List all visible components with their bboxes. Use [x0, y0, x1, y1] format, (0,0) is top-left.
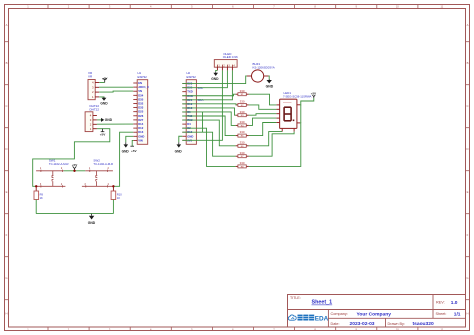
switch SW1 TC-1102-A-M-R: [36, 158, 68, 187]
svg-text:D27: D27: [138, 118, 144, 122]
wire U2 D2 to R8: [182, 128, 235, 166]
ground flag at switches rail: [88, 214, 96, 226]
svg-text:KS-1206SD03YA: KS-1206SD03YA: [253, 66, 275, 70]
svg-text:GND: GND: [211, 77, 219, 81]
junction at +5V switches: [73, 170, 75, 172]
svg-text:1/1: 1/1: [454, 312, 461, 318]
svg-text:G: G: [466, 276, 468, 280]
wire U2 D5 branch to D15 row: [202, 112, 204, 132]
wire DHT22 pin1 (+5V net) down to switches: [33, 129, 110, 187]
svg-text:D32: D32: [138, 102, 144, 106]
svg-text:Drawn By:: Drawn By:: [388, 322, 406, 326]
svg-text:Sheet_1: Sheet_1: [312, 300, 333, 306]
svg-text:H: H: [5, 312, 7, 316]
wire ground rail: [36, 213, 113, 215]
svg-text:E: E: [467, 190, 469, 194]
wire OLED pin2 VCC to U2 3V3: [182, 70, 222, 140]
svg-text:B: B: [467, 61, 469, 65]
wire VR pin2 to U1 VN: [99, 91, 133, 92]
op-amp U2 ESP32 header H2: [182, 71, 196, 144]
svg-text:330: 330: [240, 140, 245, 144]
op-amp U1 ESP32 header H1: [133, 71, 149, 144]
wire U2 D5 to R4: [182, 112, 235, 125]
junction at SW1 pin3: [35, 185, 37, 187]
wire U2 D15 to R7: [182, 132, 235, 156]
resistor R6 330: [236, 140, 249, 147]
svg-text:GND: GND: [138, 134, 144, 138]
svg-text:EDA: EDA: [315, 315, 329, 322]
connector DHT22 (4-pin header): [85, 104, 99, 132]
wire U2 RXD to R1: [182, 94, 235, 96]
svg-text:TITLE:: TITLE:: [290, 296, 301, 300]
wire DHT22 pin2 to U1 D14: [97, 123, 133, 125]
wire U2 TX2 to R5: [182, 116, 235, 136]
resistor R9 1K: [34, 186, 43, 200]
svg-text:ADC1_0: ADC1_0: [138, 85, 149, 89]
wire R3 to LED1 pin c: [249, 114, 277, 116]
svg-text:VIN: VIN: [138, 138, 143, 142]
svg-text:2023-02-03: 2023-02-03: [350, 321, 375, 327]
ground flag at OLED: [211, 72, 219, 81]
connector OLED (4-pin header): [214, 52, 238, 70]
svg-text:1.0: 1.0: [451, 300, 458, 306]
resistor R8 330: [236, 161, 249, 168]
resistor R10 1K: [111, 186, 122, 200]
svg-text:TC-1102-A-M-R: TC-1102-A-M-R: [93, 162, 113, 166]
svg-text:A: A: [467, 23, 469, 27]
svg-text:D34: D34: [138, 93, 144, 97]
svg-text:+5V: +5V: [131, 149, 138, 153]
wire VR pin1 to GND: [99, 97, 104, 98]
resistor R3 330: [236, 110, 249, 117]
title block: [288, 295, 466, 328]
svg-text:C: C: [466, 104, 468, 108]
svg-text:VN: VN: [138, 89, 142, 93]
+5V flag at VR: [102, 77, 109, 83]
+5V flag at DHT22 pin1: [100, 129, 107, 137]
wire U2 RX2 to R6: [182, 120, 235, 146]
svg-text:Your Company: Your Company: [357, 312, 392, 318]
wire SW1 pin2 to SW2 pin1: [64, 170, 86, 172]
svg-text:C: C: [5, 104, 7, 108]
svg-text:B: B: [6, 61, 8, 65]
svg-text:GND: GND: [105, 118, 113, 122]
svg-text:H: H: [466, 312, 468, 316]
ground flag at U2: [175, 142, 183, 153]
svg-text:330: 330: [240, 151, 245, 155]
wire R7 to LED1 bottom pin 2: [249, 132, 294, 157]
svg-text:+5V: +5V: [72, 163, 79, 167]
svg-text:ESP32: ESP32: [138, 75, 148, 79]
wire LED1 common anode to +5V: [300, 98, 314, 123]
svg-text:F: F: [467, 233, 469, 237]
net label SCL: [197, 86, 203, 90]
switch SW2 TC-1102-A-M-R: [82, 158, 114, 187]
resistor R2 330: [236, 100, 249, 107]
wire U2 D18 to R3: [182, 108, 235, 115]
svg-text:D33: D33: [138, 106, 144, 110]
wire VR pin3 to U1 ADC1_0: [99, 86, 133, 88]
svg-text:D25: D25: [138, 110, 144, 114]
svg-text:ESP32: ESP32: [187, 75, 197, 79]
svg-text:Company:: Company:: [331, 312, 348, 316]
svg-text:EN: EN: [138, 81, 142, 85]
7-segment display LED1: [276, 91, 311, 131]
connector VR (4-pin header): [88, 71, 99, 100]
svg-text:1K: 1K: [117, 196, 120, 200]
ground flag (right-pointing) at DHT22 pin3: [101, 118, 113, 122]
svg-text:330: 330: [240, 89, 245, 93]
wire U1 VIN to +5V: [132, 140, 133, 146]
svg-text:TC-1102-A-M-R: TC-1102-A-M-R: [49, 162, 69, 166]
wire U1 GND to ground: [126, 136, 134, 142]
svg-text:D12: D12: [138, 126, 144, 130]
svg-text:GND: GND: [100, 102, 108, 106]
wire DHT22 pin3 to GND flag: [97, 119, 101, 121]
svg-text:330: 330: [240, 120, 245, 124]
junction at SW2 pin4: [112, 185, 114, 187]
wire U2 D23 to buzzer: [182, 76, 247, 84]
+5V flag at LED1: [311, 92, 316, 98]
wire OLED pin4 SDA to U2 D21: [182, 70, 232, 99]
wire R5 to LED1 pin e: [249, 123, 277, 136]
svg-text:GND: GND: [122, 149, 130, 153]
svg-text:Sheet:: Sheet:: [436, 312, 447, 316]
svg-text:1K: 1K: [40, 196, 43, 200]
svg-text:D26: D26: [138, 114, 144, 118]
svg-text:GND: GND: [88, 221, 96, 225]
wire buzzer to GND: [267, 76, 270, 79]
svg-text:F: F: [6, 233, 8, 237]
wire U2 GND to ground: [179, 136, 183, 142]
wire R8 to LED1 common anode rail: [249, 123, 301, 166]
svg-text:G: G: [5, 276, 7, 280]
wire OLED pin1 to GND: [216, 70, 218, 71]
svg-text:D13: D13: [138, 130, 144, 134]
svg-text:330: 330: [240, 110, 245, 114]
ground flag at VR: [100, 97, 108, 106]
svg-text:D14: D14: [138, 122, 144, 126]
buzzer BUZ1: [247, 62, 275, 82]
svg-text:GND: GND: [175, 149, 183, 153]
svg-text:GND: GND: [187, 134, 193, 138]
svg-text:330: 330: [240, 130, 245, 134]
svg-text:D: D: [5, 147, 7, 151]
wire R4 to LED1 pin d: [249, 118, 277, 125]
ground flag at buzzer: [266, 79, 274, 88]
svg-text:Date:: Date:: [331, 322, 340, 326]
wire R6 to LED1 bottom pin 1: [249, 132, 282, 146]
wire VR pin4 to +5V: [99, 82, 104, 84]
svg-text:E: E: [6, 190, 8, 194]
svg-text:7-SEG-SC56-11SRWA: 7-SEG-SC56-11SRWA: [283, 95, 312, 99]
wire R9 to ground rail: [35, 200, 37, 214]
svg-text:A: A: [6, 23, 8, 27]
svg-text:+5V: +5V: [102, 77, 109, 81]
wire R1 to LED1 pin a: [249, 94, 277, 105]
svg-text:+5V: +5V: [311, 92, 316, 96]
net label SDA: [197, 98, 203, 102]
resistor R4 330: [236, 120, 249, 127]
svg-text:REV:: REV:: [436, 300, 445, 304]
svg-text:+5V: +5V: [100, 133, 107, 137]
svg-text:GND: GND: [266, 84, 274, 88]
+5V flag at switches: [72, 163, 79, 171]
wire R2 to LED1 pin b: [249, 105, 277, 109]
+5V flag at U1 VIN: [130, 146, 137, 153]
svg-text:DHT22: DHT22: [90, 107, 100, 111]
svg-text:330: 330: [240, 161, 245, 165]
svg-text:TXD: TXD: [187, 90, 193, 94]
wire R10 to ground rail: [112, 200, 114, 214]
svg-text:R10: R10: [117, 192, 122, 196]
svg-text:D4: D4: [187, 122, 191, 126]
ground flag at U1: [122, 142, 130, 153]
wire OLED pin3 SCL to U2 D22: [182, 70, 227, 87]
svg-text:tsaou320: tsaou320: [413, 321, 434, 327]
svg-text:OLED 0.96: OLED 0.96: [223, 55, 238, 59]
svg-text:R9: R9: [40, 192, 44, 196]
svg-text:330: 330: [240, 100, 245, 104]
resistor R5 330: [236, 130, 249, 137]
svg-text:D35: D35: [138, 97, 144, 101]
resistor R7 330: [236, 151, 249, 158]
resistor R1 330: [236, 89, 249, 96]
svg-text:D: D: [466, 147, 468, 151]
wire U2 D19 to R2: [182, 104, 236, 105]
wire U1 D13 to SW2 pin4: [113, 132, 133, 186]
